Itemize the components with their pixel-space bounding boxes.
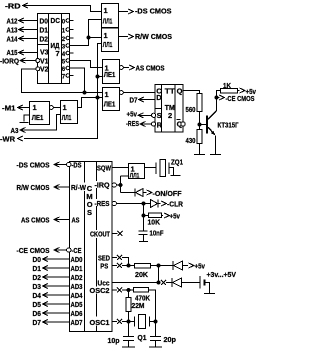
wire PS node to Ucc row <box>157 266 161 285</box>
svg-text:OSC2: OSC2 <box>90 286 110 295</box>
svg-text:D2: D2 <box>33 273 42 282</box>
wire R1 to base node <box>198 112 207 130</box>
svg-text:2: 2 <box>62 36 65 43</box>
svg-text:7: 7 <box>62 73 65 80</box>
svg-text:10nF: 10nF <box>150 228 164 237</box>
wire AS CMOS output arrow <box>123 63 164 72</box>
svg-text:+5v: +5v <box>195 261 206 270</box>
wire -IORQ to decoder V1 <box>0 56 36 65</box>
svg-text:D1: D1 <box>33 264 42 273</box>
svg-text:-DS CMOS: -DS CMOS <box>135 7 172 16</box>
battery GB1 +3v...+5V <box>200 270 236 294</box>
diode VD2 to -CLR <box>144 200 184 209</box>
svg-text:+5v: +5v <box>246 87 257 96</box>
svg-text:+5v: +5v <box>170 211 181 220</box>
svg-text:7: 7 <box>56 49 60 58</box>
svg-text:20K: 20K <box>135 270 149 279</box>
svg-text:AD0: AD0 <box>71 255 83 264</box>
diode VD4 from battery <box>172 278 200 287</box>
diode VD1 to -ON/OFF <box>135 189 182 198</box>
svg-text:CKOUT: CKOUT <box>90 230 110 239</box>
svg-text:ZQ1: ZQ1 <box>171 157 183 166</box>
svg-text:1: 1 <box>63 103 67 112</box>
wire -M1 input <box>2 103 30 112</box>
wire +5v to trigger S input <box>127 110 152 119</box>
wire OSC2 pin with x <box>112 288 130 293</box>
svg-text:+5v: +5v <box>127 110 138 119</box>
svg-text:AD2: AD2 <box>71 273 83 282</box>
svg-text:-RES: -RES <box>126 119 139 128</box>
svg-text:1: 1 <box>105 90 109 99</box>
svg-text:-IRQ: -IRQ <box>95 181 110 190</box>
svg-text:ЛЕ1: ЛЕ1 <box>104 72 116 79</box>
svg-text:-DS: -DS <box>72 160 82 169</box>
wire decoder output 5 to gate DD3.1 <box>70 61 103 68</box>
nor-gate DD4.1 LE1 (-M1) <box>30 102 54 125</box>
svg-text:+3v...+5V: +3v...+5V <box>207 270 237 279</box>
svg-text:1: 1 <box>104 6 108 15</box>
wire D7 to trigger D input <box>130 96 156 105</box>
svg-text:AS CMOS: AS CMOS <box>21 215 50 224</box>
svg-text:A12: A12 <box>7 16 18 25</box>
svg-text:20p: 20p <box>164 335 177 344</box>
svg-text:DC: DC <box>51 16 61 25</box>
wire decoder output 6 to V2 node and gate DD3.2 <box>70 68 103 94</box>
svg-text:-DS CMOS: -DS CMOS <box>17 160 50 169</box>
capacitor C2 10p <box>108 322 136 348</box>
wire DD3.2 output to trigger C input <box>123 92 155 94</box>
svg-text:-CE: -CE <box>72 246 82 255</box>
capacitor C1 10nF <box>139 228 164 241</box>
svg-text:560: 560 <box>186 105 196 114</box>
wire trigger Q to resistor R1 <box>183 91 200 94</box>
crystal ZQ1 <box>145 157 184 176</box>
svg-text:OSC1: OSC1 <box>90 318 110 327</box>
svg-text:R: R <box>157 120 163 129</box>
wire CKOUT pin with x <box>112 231 123 236</box>
svg-text:AD5: AD5 <box>71 300 83 309</box>
RTC chip D1 CMOS MC146818 <box>67 160 117 331</box>
svg-text:5: 5 <box>62 58 65 65</box>
resistor R4 10K to +5v <box>144 211 181 226</box>
wire -IRQ to gate DD2.4 and diode row <box>116 176 134 193</box>
svg-text:D7: D7 <box>33 318 42 327</box>
svg-text:-CE CMOS: -CE CMOS <box>17 246 50 255</box>
svg-text:6: 6 <box>62 66 65 73</box>
svg-text:10p: 10p <box>108 336 120 345</box>
svg-text:S: S <box>157 111 162 120</box>
svg-text:D3: D3 <box>33 282 42 291</box>
resistor R6 470K <box>129 288 156 322</box>
svg-text:D7: D7 <box>130 96 138 105</box>
svg-text:AS CMOS: AS CMOS <box>136 63 165 72</box>
svg-text:S: S <box>87 208 92 217</box>
wire data bus D0-D7 to chip AD0-AD7 <box>33 255 70 327</box>
svg-text:AD4: AD4 <box>71 291 84 300</box>
svg-text:V2: V2 <box>40 65 49 74</box>
or-gate DD2.4 LL1 <box>129 164 145 180</box>
wire AS CMOS to chip <box>21 215 70 224</box>
svg-text:R/-W: R/-W <box>71 183 87 192</box>
svg-text:D6: D6 <box>33 309 42 318</box>
svg-text:SQW: SQW <box>97 163 112 172</box>
svg-text:D0: D0 <box>33 255 42 264</box>
wire R2 to ground <box>194 144 205 155</box>
svg-text:2: 2 <box>168 111 172 120</box>
svg-text:430: 430 <box>186 136 196 145</box>
wire -RES to trigger R input <box>126 119 151 128</box>
wire decoder output 3 to gates DD2.1/DD2.2 <box>70 20 102 46</box>
svg-text:ЛЕ1: ЛЕ1 <box>32 115 44 122</box>
svg-text:-ON/OFF: -ON/OFF <box>153 189 182 198</box>
svg-text:ЛЕ1: ЛЕ1 <box>104 102 116 109</box>
svg-text:A14: A14 <box>7 34 19 43</box>
svg-text:-RES: -RES <box>95 199 110 208</box>
wire SED pin with x <box>112 255 129 266</box>
svg-text:PS: PS <box>100 261 108 270</box>
wire -WR label <box>0 134 23 143</box>
flip-flop DD5 TM2 <box>152 85 186 133</box>
wire A3 input to DD2.3 <box>11 115 61 135</box>
svg-text:1K: 1K <box>223 81 231 90</box>
svg-text:D2: D2 <box>40 34 49 43</box>
svg-text:1: 1 <box>33 103 37 112</box>
node collector junction <box>215 96 219 100</box>
svg-text:ЛЛ1: ЛЛ1 <box>62 115 72 122</box>
wire A12 to decoder D0 <box>7 16 38 25</box>
wire A14 to decoder D2 <box>7 34 38 43</box>
resistor R3 1K to +5v <box>217 81 257 98</box>
wire PS pin with x <box>112 263 130 268</box>
svg-text:V3: V3 <box>40 48 49 57</box>
svg-text:AD7: AD7 <box>71 318 83 327</box>
svg-text:22M: 22M <box>132 301 145 310</box>
wire collector to -CE CMOS arrow <box>217 94 255 103</box>
nor-gate DD3.1 LE1 <box>103 60 124 84</box>
wire -RD input with arrow <box>5 2 102 12</box>
crystal Q1 <box>129 315 158 342</box>
svg-text:AD6: AD6 <box>71 309 83 318</box>
svg-text:0: 0 <box>62 18 65 25</box>
wire DD2.3 output to strobe node <box>78 98 98 108</box>
wire -RES pin to -CLR node <box>116 202 145 206</box>
nor-gate DD3.2 LE1 <box>103 88 124 111</box>
diode VD3 from +5v <box>159 261 206 270</box>
svg-text:1: 1 <box>62 27 65 34</box>
svg-text:Q: Q <box>177 87 183 96</box>
svg-text:-WR: -WR <box>0 134 16 143</box>
svg-text:Q1: Q1 <box>138 333 147 342</box>
wire decoder V2 feedback from output 6 <box>22 69 85 93</box>
wire -CLR node down to R4 node <box>142 204 146 231</box>
or-gate DD2.2 LL1 <box>102 28 119 52</box>
wire -DS CMOS to chip <box>17 160 67 169</box>
wire OSC1 pin with x <box>112 319 130 324</box>
wire DD4.1 out to DD2.3 <box>53 107 60 109</box>
svg-text:3: 3 <box>62 43 65 50</box>
svg-text:ЛЛ1: ЛЛ1 <box>130 173 140 180</box>
wire A15 to decoder V3 <box>7 48 38 57</box>
svg-text:1: 1 <box>104 31 108 40</box>
svg-text:D1: D1 <box>40 25 49 34</box>
resistor R5 20K <box>129 264 161 279</box>
or-gate DD2.3 LL1 <box>61 101 78 124</box>
wire -DS CMOS output arrow <box>119 7 172 16</box>
resistor R2 430 <box>186 130 203 145</box>
svg-text:D5: D5 <box>33 300 42 309</box>
svg-text:4: 4 <box>62 51 65 58</box>
svg-text:R/W CMOS: R/W CMOS <box>17 183 50 192</box>
wire A13 to decoder D1 <box>7 25 38 34</box>
svg-text:A3: A3 <box>11 126 19 135</box>
wire R/W CMOS output arrow <box>119 32 173 41</box>
transistor VT1 KT315G <box>207 98 239 155</box>
svg-text:R/W CMOS: R/W CMOS <box>135 32 172 41</box>
decoder DD1 ID7 (DC) with outputs 0-7 <box>36 14 74 84</box>
resistor R1 560 <box>186 94 203 115</box>
wire R/W CMOS to chip <box>17 183 70 192</box>
svg-text:КТ315Г: КТ315Г <box>218 120 240 129</box>
svg-text:AD1: AD1 <box>71 264 83 273</box>
svg-text:D4: D4 <box>33 291 42 300</box>
capacitor C3 20p <box>149 322 176 348</box>
wire Ucc pin <box>112 280 172 285</box>
resistor R7 22M <box>126 290 145 322</box>
ground at DD4.1 input <box>20 115 30 123</box>
or-gate DD2.1 LL1 <box>102 4 119 28</box>
svg-text:AS: AS <box>72 215 80 224</box>
svg-text:TT: TT <box>165 87 175 96</box>
svg-text:-RD: -RD <box>5 2 21 11</box>
svg-text:D0: D0 <box>40 16 49 25</box>
wire SQW to gate DD2.4 <box>112 167 129 169</box>
svg-text:AD3: AD3 <box>71 282 83 291</box>
svg-text:ЛЛ1: ЛЛ1 <box>103 19 113 26</box>
svg-text:A13: A13 <box>7 25 18 34</box>
svg-text:10K: 10K <box>148 217 161 226</box>
wire IO-select strobe vertical to -WR <box>24 44 103 139</box>
wire -CE CMOS to chip <box>17 246 67 255</box>
svg-text:-IORQ: -IORQ <box>0 56 19 65</box>
svg-text:ЛЛ1: ЛЛ1 <box>103 42 113 49</box>
svg-text:D: D <box>156 93 162 102</box>
svg-text:-M1: -M1 <box>2 103 16 112</box>
svg-text:-CLR: -CLR <box>167 200 184 209</box>
